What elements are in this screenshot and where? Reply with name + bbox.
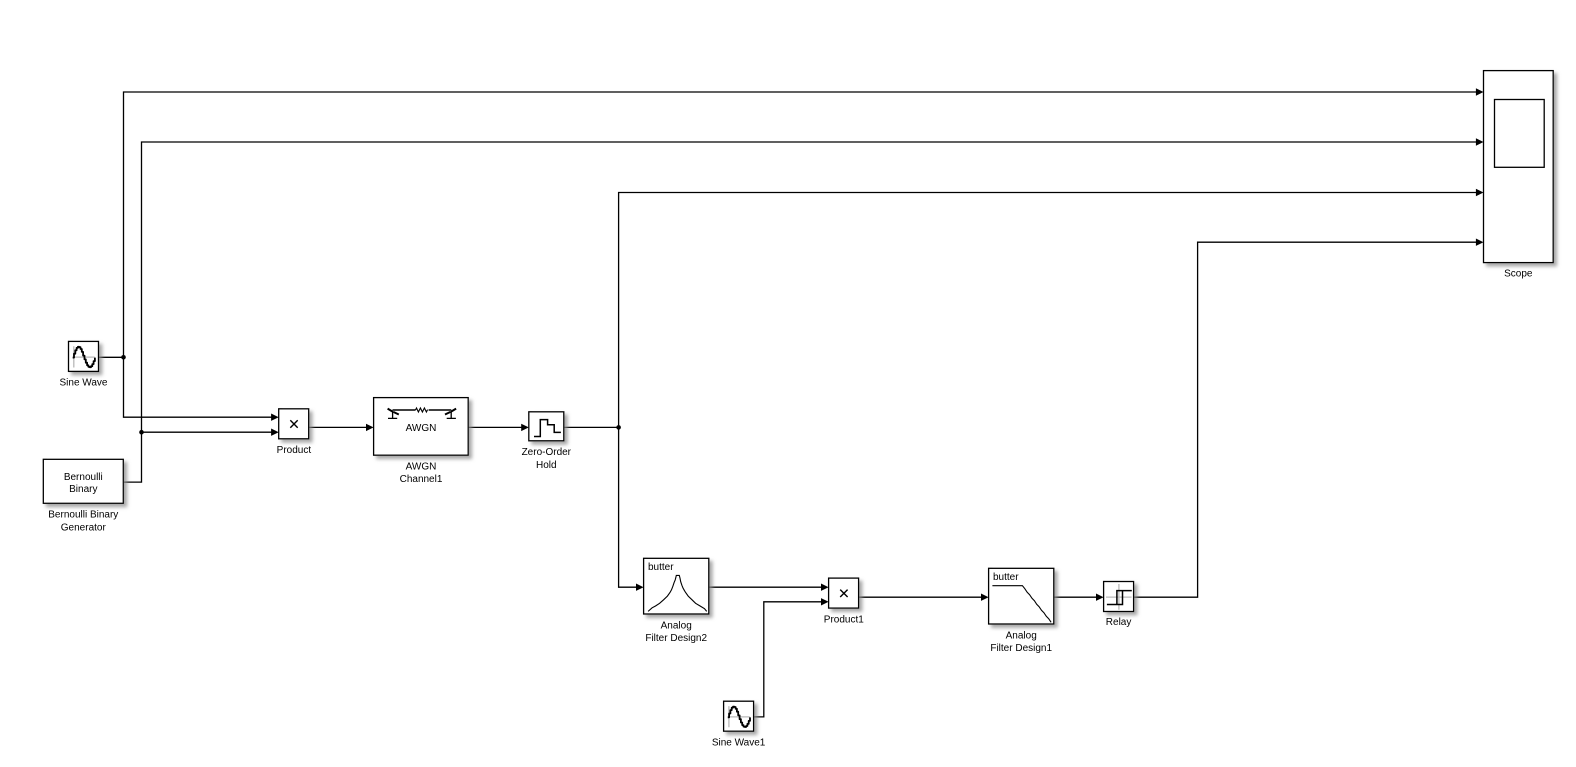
junction A [121,355,126,360]
wire Relay output up to Scope input 4 [1134,239,1484,598]
wire junction B right to Product input 2 [142,429,279,436]
block AWGN Channel1 [374,398,469,486]
wire Zero-Order Hold output to junction C [564,426,619,428]
svg-text:butter: butter [993,572,1019,583]
svg-text:Binary: Binary [69,484,97,495]
svg-text:Scope: Scope [1504,269,1533,280]
svg-text:Product1: Product1 [824,615,864,626]
svg-text:Sine Wave: Sine Wave [60,378,108,389]
block Analog Filter Design2 [644,558,709,644]
wire AWGN output to Zero-Order Hold input [468,424,529,431]
svg-text:AWGN: AWGN [406,461,437,472]
block Zero-Order Hold [522,412,572,471]
wire junction C up to Scope input 3 [619,189,1484,428]
svg-text:Sine Wave1: Sine Wave1 [712,738,766,749]
svg-text:Bernoulli: Bernoulli [64,472,103,483]
wire junction A up and right to Scope input 1 [124,88,1484,357]
wire Sine Wave output to junction A [99,356,124,358]
block Product1 [824,578,864,625]
junction C [616,425,621,430]
svg-text:Hold: Hold [536,460,557,471]
svg-text:Bernoulli Binary: Bernoulli Binary [48,510,118,521]
svg-text:butter: butter [648,562,674,573]
wire junction C down to Analog Filter Design2 input [619,427,644,591]
block Relay [1104,582,1134,629]
svg-text:Relay: Relay [1106,617,1132,628]
wire Analog Filter Design1 output to Relay input [1054,594,1104,601]
svg-text:Channel1: Channel1 [400,474,443,485]
block Analog Filter Design1 [989,568,1054,654]
wire Sine Wave1 output to Product1 input 2 [754,598,829,717]
block Sine Wave [60,341,108,388]
svg-text:Analog: Analog [1006,630,1037,641]
junction B [139,430,144,435]
svg-text:Filter Design2: Filter Design2 [645,633,707,644]
svg-text:Filter Design1: Filter Design1 [990,643,1052,654]
block Scope [1484,71,1554,280]
svg-text:Product: Product [277,445,312,456]
wire Bernoulli output up to Scope input 2 [123,138,1483,482]
svg-text:Generator: Generator [61,522,107,533]
block Bernoulli Binary Generator [43,459,123,533]
block Product [277,409,312,456]
wire junction A down and right to Product input 1 [124,357,279,421]
svg-text:Analog: Analog [661,620,692,631]
svg-text:Zero-Order: Zero-Order [522,447,572,458]
wire Product1 output to Analog Filter Design1 input [859,594,989,601]
wire Analog Filter Design2 output to Product1 input 1 [709,584,829,591]
block Sine Wave1 [712,701,766,748]
svg-text:AWGN: AWGN [406,423,437,434]
wire Product output to AWGN input [309,424,374,431]
